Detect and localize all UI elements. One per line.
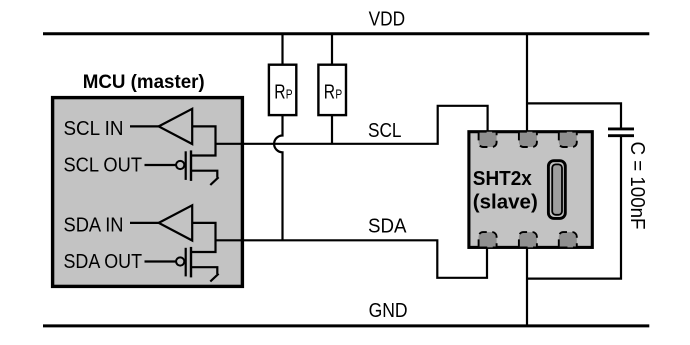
wire VDD to resistor RP1 [281,33,283,64]
MCU (master) box [53,98,243,287]
wire VDD branch to capacitor [527,103,621,127]
pad pin 1 (SDA, bottom-left) [479,232,497,247]
wire SHT2x pin 2 down to GND rail [526,249,528,328]
svg-text:(slave): (slave) [473,192,538,214]
wire SCL OUT to gate bubble [145,164,177,166]
SHT2x (slave) package body [469,132,592,248]
svg-text:SCL OUT: SCL OUT [64,154,143,176]
sensor opening slot outer [548,161,565,219]
wire RP1 down with hop over SCL, to SDA [274,116,282,240]
buffer U1A (SCL input buffer) [159,109,193,144]
pad pin 6 (SCL, top-left) [479,132,497,147]
transistor Q2 (SDA open-drain MOSFET) [176,247,219,282]
pad pin 4 (NC, top-right) [559,132,577,147]
wire SDA OUT to gate bubble [145,260,177,262]
pad pin 2 (GND, bottom-middle) [519,232,537,247]
wire buffer output to SDA node [191,223,216,252]
svg-text:SDA IN: SDA IN [64,215,124,237]
svg-text:SDA: SDA [368,215,407,238]
VDD rail [43,32,649,35]
svg-text:SCL: SCL [368,119,402,142]
svg-text:SHT2x: SHT2x [473,168,532,190]
capacitor C1 plates [608,129,634,136]
sensor opening slot inner [552,164,562,214]
wire SCL IN to buffer [130,125,159,127]
svg-text:P: P [286,87,293,102]
pad pin 5 (VDD, top-middle) [519,132,537,147]
svg-text:R: R [324,82,335,104]
wire VDD to resistor RP2 [331,33,333,64]
resistor RP2 (SCL pull-up) [318,65,346,115]
transistor Q1 (SCL open-drain MOSFET) [176,150,219,185]
svg-text:SCL IN: SCL IN [64,118,124,140]
svg-text:GND: GND [369,299,408,322]
wire capacitor to GND net [527,137,621,279]
wire SDA IN to buffer [130,222,159,224]
wire SDA net [216,240,488,277]
svg-text:R: R [274,82,285,104]
resistor RP1 (SDA pull-up) [269,65,296,115]
svg-text:SDA OUT: SDA OUT [64,251,143,273]
wire buffer output to SCL node [191,126,216,155]
svg-text:P: P [335,87,342,102]
svg-text:VDD: VDD [369,8,406,31]
buffer U1B (SDA input buffer) [159,205,193,240]
pad pin 3 (NC, bottom-right) [559,232,577,247]
wire RP2 down to SCL [331,116,333,144]
svg-text:MCU (master): MCU (master) [83,72,205,93]
GND rail [43,324,649,327]
wire VDD down to SHT2x pin 5 [526,33,528,131]
wire SCL net [216,106,488,144]
svg-text:C = 100nF: C = 100nF [626,142,648,230]
